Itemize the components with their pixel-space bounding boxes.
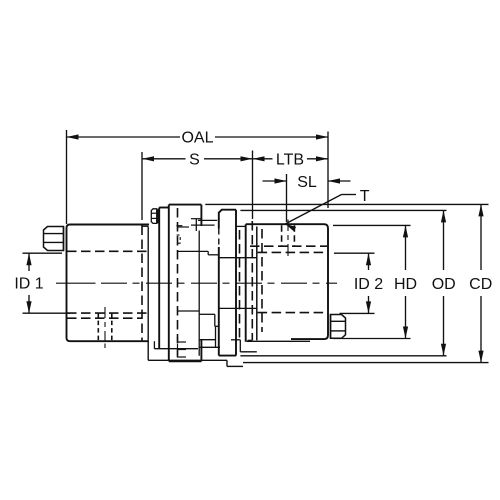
- sleeve flange OD: [219, 210, 236, 356]
- dimension S: [142, 151, 253, 220]
- svg-text:ID 1: ID 1: [14, 276, 43, 293]
- centerline: [56, 282, 337, 284]
- left hub hidden face: [141, 226, 143, 341]
- dimension HD: [333, 225, 417, 338]
- svg-text:OD: OD: [432, 276, 456, 293]
- center jaw profile: [177, 219, 257, 356]
- svg-text:HD: HD: [394, 276, 417, 293]
- dimension ID 1: [14, 253, 70, 313]
- flange OD hidden line: [239, 230, 241, 340]
- flange hidden line: [177, 208, 179, 358]
- right hub bore hidden lines: [258, 252, 327, 312]
- svg-text:S: S: [189, 151, 200, 168]
- svg-text:SL: SL: [297, 174, 317, 191]
- right hub keyway hidden line: [250, 245, 327, 247]
- collar clamp nut: [151, 209, 158, 224]
- svg-text:CD: CD: [469, 276, 492, 293]
- left hub bore hidden lines: [67, 251, 147, 313]
- right hub set screw nut: [331, 315, 346, 339]
- svg-text:T: T: [360, 188, 370, 205]
- label T leader: [285, 188, 370, 231]
- dimension OD: [240, 210, 455, 355]
- bottom profile steps: [148, 341, 243, 366]
- left hub outline: [67, 225, 150, 342]
- right hub hidden face: [248, 221, 253, 340]
- right hub outline: [236, 224, 328, 342]
- dimension ID 2: [334, 253, 383, 313]
- left hub set screw nut: [44, 227, 64, 251]
- dimension SL: [263, 174, 351, 222]
- left hub set screw hole: [98, 307, 112, 348]
- dimension CD: [205, 204, 492, 362]
- sleeve collar left: [148, 208, 169, 361]
- dimension OAL: [67, 130, 329, 225]
- svg-text:LTB: LTB: [276, 151, 304, 168]
- sleeve flange CD: [169, 205, 202, 362]
- dimension LTB: [253, 151, 329, 220]
- right hub set screw hole: [282, 220, 295, 257]
- flange internal bottom details: [178, 337, 187, 358]
- flange internal top details: [176, 219, 217, 244]
- svg-text:ID 2: ID 2: [354, 276, 383, 293]
- left hub keyway hidden line: [67, 317, 142, 319]
- right hub inner hidden line: [261, 229, 263, 332]
- svg-text:OAL: OAL: [181, 130, 213, 147]
